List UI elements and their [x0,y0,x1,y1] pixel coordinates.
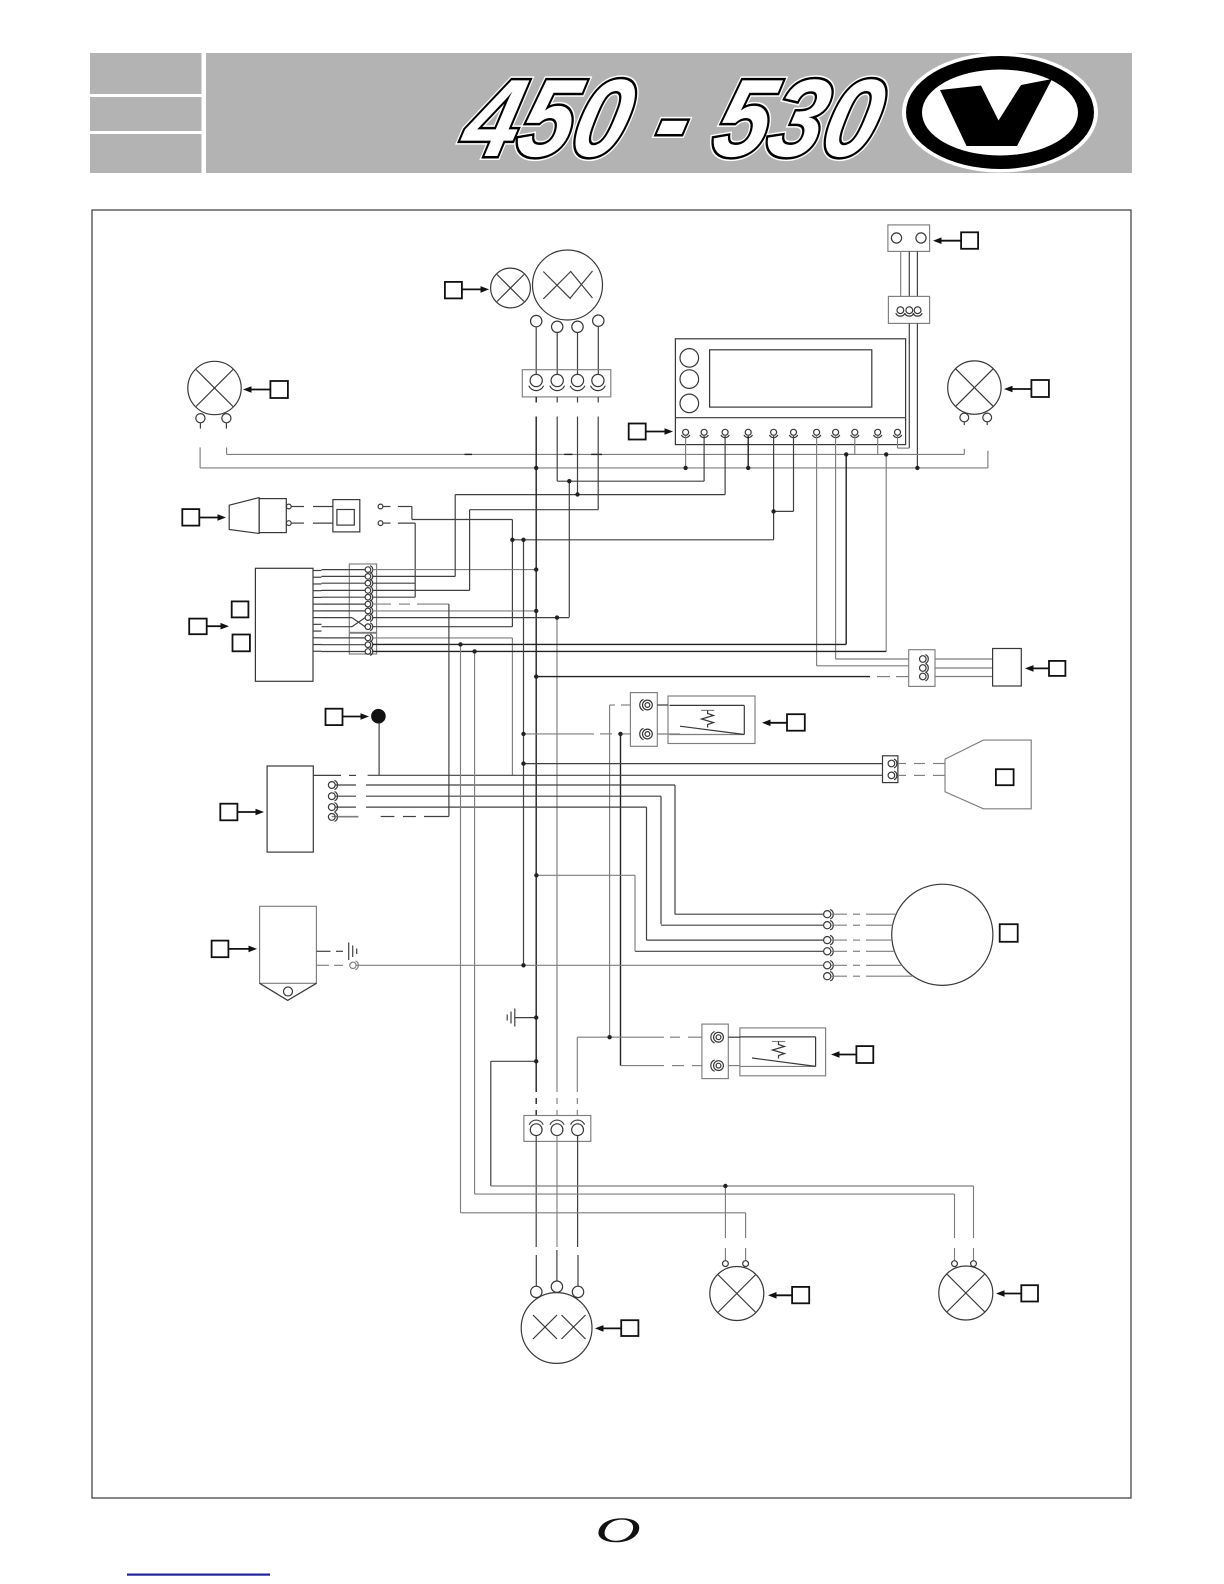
svg-text:450 - 530: 450 - 530 [450,57,896,180]
svg-text:O: O [595,1510,640,1550]
